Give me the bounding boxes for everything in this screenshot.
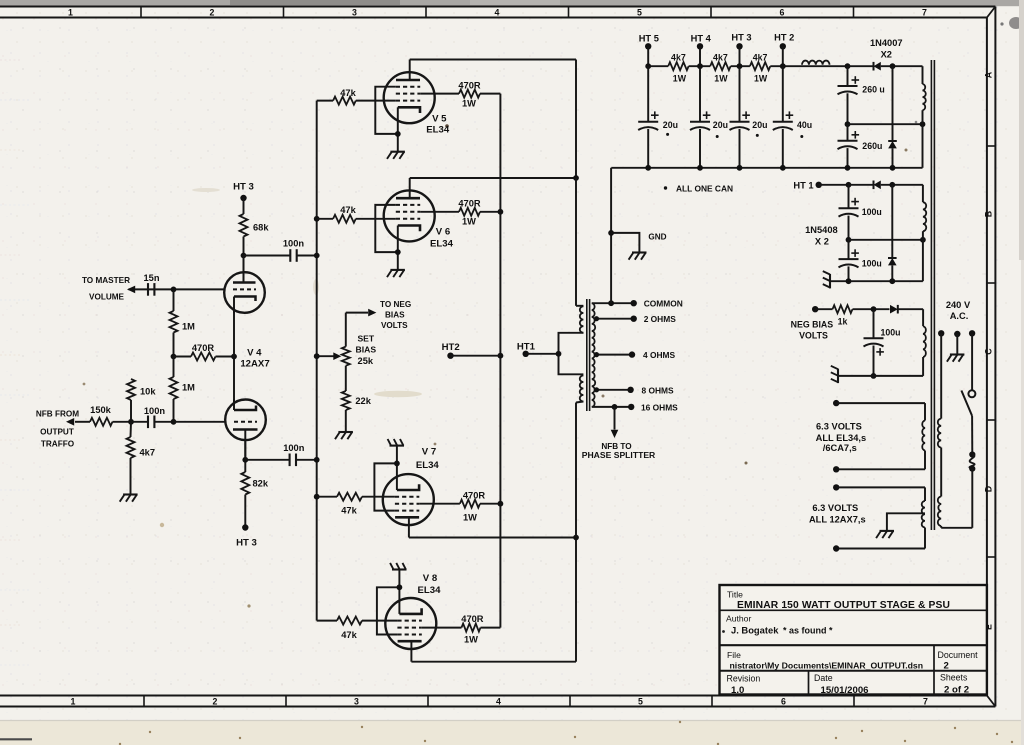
svg-text:100u: 100u bbox=[862, 258, 882, 268]
svg-text:40u: 40u bbox=[797, 120, 812, 130]
resistor 1M (lower grid leak) bbox=[170, 357, 196, 422]
svg-text:HT 3: HT 3 bbox=[731, 32, 751, 42]
svg-text:6: 6 bbox=[780, 8, 785, 18]
capacitor 100u (HT1 upper) bbox=[839, 185, 882, 240]
wire HT2 screen bus bbox=[498, 94, 504, 628]
capacitor 100u (HT1 lower) bbox=[839, 240, 882, 281]
resistor 82k (V4b anode load) bbox=[241, 472, 269, 528]
node reservoir midpoint bbox=[845, 121, 926, 127]
svg-text:2 of 2: 2 of 2 bbox=[944, 685, 969, 696]
capacitor 20u (HT5) bbox=[638, 66, 678, 168]
svg-text:2: 2 bbox=[210, 8, 215, 18]
svg-text:1: 1 bbox=[71, 697, 76, 707]
svg-text:1W: 1W bbox=[463, 513, 477, 523]
transformer T2 HT winding bbox=[923, 66, 926, 168]
wire V4a grid to input node bbox=[148, 288, 224, 290]
node tail junction bbox=[171, 354, 177, 360]
resistor 47k (V7 grid) bbox=[317, 493, 395, 516]
diode 1N5408 (HT1 rectifier) bbox=[805, 181, 923, 247]
transformer T2 heater winding 6.3V 12AX7 bbox=[833, 484, 925, 552]
svg-text:Date: Date bbox=[814, 673, 833, 683]
svg-text:7: 7 bbox=[922, 8, 927, 18]
svg-text:470R: 470R bbox=[461, 614, 484, 624]
ground (12AX7 heater centre tap) bbox=[876, 513, 925, 538]
svg-text:PHASE SPLITTER: PHASE SPLITTER bbox=[582, 450, 656, 460]
svg-text:NFB FROM: NFB FROM bbox=[36, 409, 79, 418]
node grid input junction bbox=[171, 287, 177, 293]
resistor 47k (V5 grid) bbox=[317, 88, 396, 105]
svg-text:7: 7 bbox=[923, 697, 928, 707]
svg-text:ALL 12AX7,s: ALL 12AX7,s bbox=[809, 515, 866, 525]
svg-text:BIAS: BIAS bbox=[385, 310, 405, 319]
transformer T1 primary (output) bbox=[556, 306, 584, 403]
resistor 4k7 1W (HT5-HT4) bbox=[648, 52, 710, 83]
svg-text:82k: 82k bbox=[253, 479, 269, 489]
node anode bus top bbox=[573, 175, 579, 181]
node HT1 midpoint bbox=[846, 237, 926, 243]
node HT 3 (lower supply terminal) bbox=[236, 524, 257, 548]
svg-text:470R: 470R bbox=[192, 343, 215, 353]
wire PSU ground rail bbox=[611, 165, 922, 171]
wire junction to V4b cathode bbox=[233, 357, 235, 406]
svg-text:15n: 15n bbox=[143, 273, 159, 283]
pentode V5 (EL34) bbox=[375, 72, 450, 152]
label 6.3 VOLTS ALL EL34,s /6CA7,s bbox=[816, 421, 866, 453]
svg-text:GND: GND bbox=[648, 232, 666, 241]
svg-text:Revision: Revision bbox=[727, 673, 761, 683]
node V4b grid junction bbox=[171, 419, 177, 425]
svg-text:HT 3: HT 3 bbox=[236, 538, 257, 549]
svg-text:VOLUME: VOLUME bbox=[89, 293, 125, 302]
node NFB divider junction bbox=[128, 419, 134, 425]
svg-text:HT 4: HT 4 bbox=[691, 33, 712, 43]
wire V8 anode to bus bbox=[411, 538, 576, 662]
node NEG BIAS VOLTS terminal bbox=[791, 306, 834, 340]
wire bias ground rail bbox=[838, 375, 923, 377]
capacitor 40u (HT2) bbox=[773, 66, 812, 168]
svg-text:A.C.: A.C. bbox=[950, 311, 969, 321]
svg-text:HT 3: HT 3 bbox=[233, 182, 254, 193]
svg-text:V 6: V 6 bbox=[436, 227, 450, 238]
pentode V8 (EL34, inverted) bbox=[377, 570, 441, 650]
inductor choke (smoothing) bbox=[802, 61, 848, 67]
transformer T2 mains primary bbox=[938, 333, 973, 528]
transformer T2 core bbox=[931, 60, 934, 530]
resistor 470R 1W (V6 screen) bbox=[420, 199, 500, 227]
arrow TO NEG BIAS VOLTS bbox=[346, 300, 411, 330]
svg-text:260 u: 260 u bbox=[862, 85, 885, 95]
resistor 470R (cathode bias) bbox=[174, 343, 235, 361]
diode 1N5408 (lower doubler) bbox=[888, 185, 897, 281]
resistor 150k (NFB feed) bbox=[75, 405, 131, 426]
svg-text:TO MASTER: TO MASTER bbox=[82, 276, 130, 285]
ground GND (main star point) bbox=[611, 232, 667, 259]
svg-text:22k: 22k bbox=[355, 396, 371, 406]
transformer T2 HT1 winding bbox=[923, 185, 926, 281]
node HT 5 terminal bbox=[639, 33, 659, 66]
resistor 470R 1W (V8 screen) bbox=[422, 614, 501, 644]
ground (V6 cathode) bbox=[390, 269, 405, 271]
pentode V6 (EL34) bbox=[375, 190, 453, 270]
svg-text:470R: 470R bbox=[458, 81, 481, 91]
svg-text:BIAS: BIAS bbox=[356, 345, 377, 355]
svg-text:4 OHMS: 4 OHMS bbox=[643, 350, 676, 360]
svg-text:1M: 1M bbox=[182, 322, 195, 332]
node rectifier junction bbox=[890, 63, 896, 69]
node COMMON tap bbox=[592, 299, 683, 309]
svg-text:EL34: EL34 bbox=[416, 460, 440, 471]
node rail junctions bbox=[645, 63, 850, 69]
capacitor 100u (bias filter) bbox=[864, 309, 901, 379]
wire HT1 ground rail bbox=[830, 278, 923, 284]
node HT 2 terminal (psu) bbox=[774, 32, 794, 66]
potentiometer SET BIAS 25k bbox=[317, 313, 377, 366]
svg-text:2 OHMS: 2 OHMS bbox=[644, 314, 677, 324]
svg-text:ALL ONE CAN: ALL ONE CAN bbox=[676, 183, 733, 193]
svg-text:Sheets: Sheets bbox=[940, 673, 968, 683]
svg-text:6: 6 bbox=[781, 697, 786, 707]
node V4 cathode junction bbox=[231, 354, 237, 360]
node mains terminals bbox=[938, 330, 975, 337]
svg-text:15/01/2006: 15/01/2006 bbox=[821, 685, 869, 696]
ground (HT1 rail) bbox=[829, 274, 831, 288]
svg-text:COMMON: COMMON bbox=[644, 299, 683, 309]
svg-text:2: 2 bbox=[944, 660, 949, 671]
wire V5 anode to output transformer bus bbox=[410, 60, 576, 179]
svg-text:NEG BIAS: NEG BIAS bbox=[791, 319, 834, 329]
svg-text:J. Bogatek: J. Bogatek bbox=[731, 625, 779, 636]
title block texts bbox=[722, 590, 978, 697]
capacitor 15n (input from master volume) bbox=[129, 273, 160, 296]
ground (V5 cathode) bbox=[390, 151, 405, 153]
resistor 47k (V8 grid) bbox=[317, 617, 398, 640]
svg-text:Author: Author bbox=[726, 614, 751, 624]
node HT 3 terminal (psu) bbox=[731, 32, 751, 66]
svg-text:1W: 1W bbox=[464, 634, 478, 644]
svg-text:1W: 1W bbox=[714, 74, 728, 84]
resistor 4k7 1W (HT4-HT3) bbox=[710, 52, 750, 83]
diode 1N4007 (lower doubler) bbox=[888, 66, 897, 168]
transformer T2 bias winding bbox=[923, 309, 926, 376]
transformer T2 heater winding 6.3V EL34 bbox=[833, 400, 925, 473]
svg-text:1N5408: 1N5408 bbox=[805, 225, 838, 235]
svg-text:SET: SET bbox=[357, 334, 374, 344]
svg-text:EMINAR 150 WATT OUTPUT STAGE &: EMINAR 150 WATT OUTPUT STAGE & PSU bbox=[737, 600, 950, 611]
capacitor 100n (NFB blocking) bbox=[131, 406, 174, 428]
node V4b anode junction bbox=[242, 440, 248, 472]
capacitor 100n (V4b output coupling) bbox=[245, 443, 316, 466]
svg-text:A: A bbox=[983, 71, 993, 78]
svg-text:12AX7: 12AX7 bbox=[240, 359, 269, 370]
label NFB FROM OUTPUT TRAFFO bbox=[36, 409, 79, 448]
svg-text:EL34: EL34 bbox=[426, 124, 450, 135]
node 8 OHMS tap bbox=[594, 385, 674, 395]
node V4a anode junction bbox=[241, 253, 247, 259]
capacitor 20u (HT3) bbox=[730, 66, 768, 168]
svg-text:HT 2: HT 2 bbox=[774, 32, 794, 42]
node bias cap junction bbox=[871, 306, 877, 312]
capacitor 260u (lower) bbox=[838, 124, 883, 168]
diode (bias rectifier) bbox=[890, 305, 923, 314]
resistor 22k (bias divider) bbox=[342, 366, 372, 432]
svg-text:* as found *: * as found * bbox=[783, 625, 833, 635]
node HT 4 terminal bbox=[691, 33, 712, 66]
wire V4a cathode to junction bbox=[233, 308, 235, 357]
svg-text:D: D bbox=[983, 486, 993, 492]
fuse/breaker (mains) bbox=[969, 416, 975, 528]
svg-text:100u: 100u bbox=[881, 328, 901, 338]
resistor 47k (V6 grid) bbox=[317, 205, 396, 223]
arrow NFB input bbox=[66, 418, 74, 426]
capacitor 100n (V4a output coupling) bbox=[244, 239, 317, 262]
wire anode bus to transformer primary bottom bbox=[575, 403, 577, 538]
svg-text:47k: 47k bbox=[341, 630, 357, 640]
node 2 OHMS tap bbox=[594, 314, 676, 324]
transformer T1 secondary bbox=[592, 303, 595, 407]
node anode bus bottom bbox=[573, 535, 579, 541]
wire V7 anode to bus bbox=[409, 517, 576, 537]
svg-text:/6CA7,s: /6CA7,s bbox=[823, 443, 857, 453]
capacitor 260u (upper) bbox=[838, 66, 885, 124]
resistor 470R 1W (V7 screen) bbox=[419, 491, 500, 523]
svg-text:100n: 100n bbox=[283, 239, 305, 249]
svg-text:20u: 20u bbox=[663, 120, 678, 130]
pentode V7 (EL34, inverted) bbox=[374, 446, 439, 525]
label 6.3 VOLTS ALL 12AX7,s bbox=[809, 503, 866, 525]
svg-text:150k: 150k bbox=[90, 405, 112, 415]
svg-text:EL34: EL34 bbox=[430, 239, 454, 250]
svg-text:68k: 68k bbox=[253, 223, 269, 233]
triode V4a (12AX7 upper half) bbox=[224, 256, 265, 314]
svg-text:1: 1 bbox=[68, 8, 73, 18]
resistor 1k (bias feed) bbox=[815, 305, 889, 326]
svg-text:V 5: V 5 bbox=[432, 113, 447, 124]
svg-text:470R: 470R bbox=[463, 491, 486, 501]
wire to V4b grid bbox=[174, 421, 226, 423]
svg-text:ALL EL34,s: ALL EL34,s bbox=[816, 433, 866, 443]
svg-text:100n: 100n bbox=[144, 406, 166, 416]
node HT 3 (top supply terminal) bbox=[233, 182, 254, 215]
svg-text:1W: 1W bbox=[462, 98, 476, 108]
svg-text:TRAFFO: TRAFFO bbox=[41, 439, 75, 448]
ground (22k) bbox=[338, 431, 353, 433]
svg-text:VOLTS: VOLTS bbox=[381, 321, 408, 330]
svg-text:20u: 20u bbox=[752, 120, 767, 130]
svg-text:16 OHMS: 16 OHMS bbox=[641, 402, 678, 412]
svg-text:240 V: 240 V bbox=[946, 300, 971, 310]
svg-text:X2: X2 bbox=[881, 49, 892, 59]
svg-text:5: 5 bbox=[637, 8, 642, 18]
svg-text:6.3 VOLTS: 6.3 VOLTS bbox=[812, 503, 858, 513]
svg-text:10k: 10k bbox=[140, 387, 156, 397]
node HT1 terminal bbox=[517, 341, 559, 357]
svg-text:V 7: V 7 bbox=[422, 447, 436, 458]
transformer T1 core bbox=[587, 299, 590, 411]
svg-text:100n: 100n bbox=[283, 443, 305, 453]
svg-text:3: 3 bbox=[352, 8, 357, 18]
resistor 1M (upper grid leak) bbox=[170, 289, 196, 356]
diode 1N4007 X2 (HT rectifier) bbox=[848, 38, 923, 71]
svg-text:1k: 1k bbox=[838, 316, 848, 326]
node 4 OHMS tap bbox=[594, 350, 676, 360]
label TO MASTER VOLUME with arrow bbox=[82, 276, 135, 302]
ground (V8 cathode, inverted) bbox=[392, 568, 407, 570]
svg-text:Document: Document bbox=[938, 650, 979, 660]
triode V4b (12AX7 lower half, inverted) bbox=[225, 399, 266, 457]
svg-text:1W: 1W bbox=[673, 74, 687, 84]
svg-text:4: 4 bbox=[495, 8, 500, 18]
svg-text:VOLTS: VOLTS bbox=[799, 330, 828, 340]
svg-text:B: B bbox=[983, 211, 993, 217]
label V 4 12AX7 bbox=[240, 348, 269, 370]
svg-text:1W: 1W bbox=[754, 74, 768, 84]
svg-text:2: 2 bbox=[213, 697, 218, 707]
svg-text:File: File bbox=[727, 650, 741, 660]
svg-text:V 8: V 8 bbox=[423, 573, 438, 584]
node HT 1 terminal bbox=[793, 181, 848, 191]
svg-text:HT2: HT2 bbox=[442, 342, 460, 353]
svg-text:5: 5 bbox=[638, 697, 643, 707]
svg-text:470R: 470R bbox=[458, 199, 481, 209]
svg-text:X 2: X 2 bbox=[815, 237, 829, 247]
svg-text:nistrator\My Documents\EMINAR_: nistrator\My Documents\EMINAR_OUTPUT.dsn bbox=[730, 661, 924, 671]
svg-text:1M: 1M bbox=[182, 383, 195, 393]
resistor 10k (divider upper) bbox=[127, 379, 156, 422]
svg-text:HT 1: HT 1 bbox=[793, 181, 813, 191]
resistor 4k7 (divider lower) bbox=[127, 422, 156, 495]
svg-text:260u: 260u bbox=[862, 141, 882, 151]
wire grid bus vertical bbox=[316, 101, 318, 621]
ground (4k7) bbox=[123, 493, 138, 495]
svg-text:OUTPUT: OUTPUT bbox=[40, 427, 74, 436]
node HT2 terminal bbox=[442, 342, 501, 359]
svg-text:Title: Title bbox=[727, 590, 743, 600]
capacitor 20u (HT4) bbox=[690, 66, 728, 168]
svg-text:4k7: 4k7 bbox=[140, 448, 156, 458]
svg-text:3: 3 bbox=[354, 697, 359, 707]
resistor 470R 1W (V5 screen) bbox=[420, 81, 500, 109]
node bus junctions bbox=[314, 216, 320, 500]
svg-text:1.0: 1.0 bbox=[731, 685, 744, 696]
svg-text:1N4007: 1N4007 bbox=[870, 38, 903, 48]
svg-text:EL34: EL34 bbox=[418, 585, 442, 596]
label 240 V A.C. bbox=[946, 300, 971, 321]
svg-text:100u: 100u bbox=[862, 207, 882, 217]
wire COMMON to PSU ground rail bbox=[608, 168, 614, 303]
resistor 4k7 1W (HT3-HT2) bbox=[750, 52, 802, 83]
wire anode bus to transformer primary top bbox=[575, 178, 577, 306]
wire V6 anode to bus bbox=[410, 178, 576, 198]
svg-text:4: 4 bbox=[496, 697, 501, 707]
svg-text:HT 5: HT 5 bbox=[639, 33, 659, 43]
label ALL ONE CAN bbox=[664, 183, 733, 193]
title block bbox=[720, 585, 987, 695]
svg-text:8 OHMS: 8 OHMS bbox=[642, 385, 675, 395]
node 16 OHMS tap bbox=[592, 402, 678, 412]
ground (V7 cathode, inverted) bbox=[390, 445, 405, 447]
svg-text:6.3 VOLTS: 6.3 VOLTS bbox=[816, 421, 862, 431]
svg-text:25k: 25k bbox=[358, 356, 374, 366]
resistor 68k (V4a anode load) bbox=[240, 214, 270, 283]
svg-text:V 4: V 4 bbox=[247, 348, 262, 359]
svg-text:47k: 47k bbox=[341, 505, 357, 515]
arrow NFB TO PHASE SPLITTER bbox=[582, 407, 656, 460]
ground (bias rail) bbox=[837, 369, 839, 383]
svg-text:TO NEG: TO NEG bbox=[380, 300, 411, 309]
switch (mains) bbox=[961, 333, 975, 416]
svg-text:C: C bbox=[983, 348, 993, 355]
ground (mains earth) bbox=[947, 334, 965, 362]
svg-text:20u: 20u bbox=[713, 120, 728, 130]
